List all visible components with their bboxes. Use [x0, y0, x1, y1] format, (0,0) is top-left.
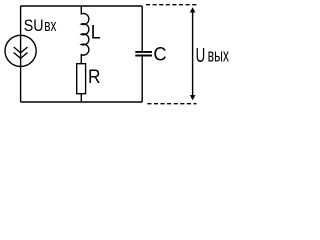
svg-text:C: C [153, 44, 166, 65]
svg-text:U: U [196, 45, 206, 67]
svg-text:L: L [91, 23, 101, 44]
svg-text:вх: вх [44, 17, 57, 35]
svg-text:R: R [88, 67, 101, 88]
svg-text:SU: SU [24, 17, 44, 35]
svg-text:вых: вых [208, 46, 229, 66]
